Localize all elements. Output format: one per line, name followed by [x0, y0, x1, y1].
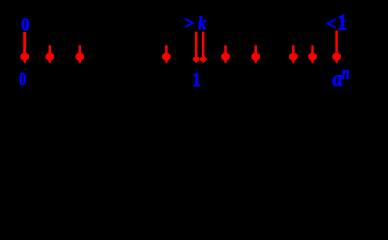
- arrow short x=293.3: [289, 45, 298, 63]
- arrow short x=79.8: [76, 45, 85, 63]
- double arrow: [193, 32, 207, 63]
- svg-text:n: n: [342, 63, 350, 83]
- arrow long left: [20, 32, 29, 63]
- svg-text:>: >: [184, 13, 194, 33]
- svg-text:k: k: [198, 13, 206, 33]
- svg-text:1: 1: [337, 10, 347, 35]
- arrow short x=255.7: [251, 45, 260, 63]
- arrow long right: [332, 31, 341, 63]
- svg-text:<: <: [326, 13, 336, 33]
- arrow short x=225.5: [221, 45, 230, 63]
- arrow short x=166.4: [162, 45, 171, 63]
- svg-text:1: 1: [192, 69, 201, 91]
- svg-text:0: 0: [21, 14, 29, 34]
- arrow short x=312.5: [308, 45, 317, 63]
- svg-text:0: 0: [19, 69, 26, 89]
- arrow short x=49.8: [46, 45, 55, 63]
